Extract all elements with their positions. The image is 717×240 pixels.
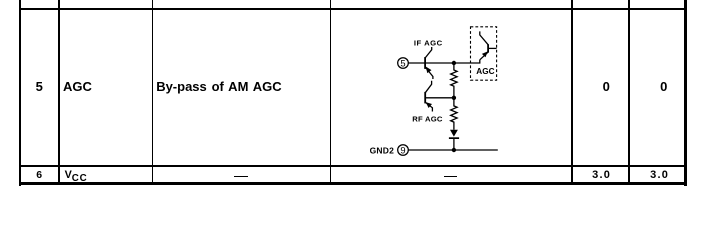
pin 9 terminal GND2	[398, 145, 409, 156]
pin 5 terminal	[398, 58, 409, 69]
wire Q2 base to node B	[426, 97, 454, 99]
node B junction	[452, 96, 456, 100]
svg-text:GND2: GND2	[370, 145, 394, 155]
table frame lines	[19, 0, 21, 186]
resistor R1	[451, 63, 457, 98]
svg-text:RF AGC: RF AGC	[412, 115, 443, 124]
svg-text:AGC: AGC	[476, 67, 494, 76]
svg-text:9: 9	[400, 145, 405, 156]
dashed box AGC block	[471, 27, 497, 80]
transistor Q2 (RF AGC, PNP)	[424, 81, 432, 112]
node A junction	[452, 61, 456, 65]
wire pin 5 to Q1 base and node A	[408, 62, 454, 64]
wire node A to Q3 emitter	[454, 60, 480, 63]
row 6 text	[36, 170, 42, 181]
diode D1	[449, 130, 459, 150]
svg-text:5: 5	[400, 58, 405, 69]
junction on GND2 rail	[452, 148, 456, 152]
wire GND2 rail	[408, 149, 497, 151]
svg-text:IF AGC: IF AGC	[414, 38, 443, 47]
circuit schematic	[352, 18, 517, 163]
resistor R2	[451, 98, 457, 130]
transistor Q3 (AGC, PNP mirrored)	[480, 31, 497, 59]
transistor Q1 (IF AGC, PNP)	[424, 47, 433, 79]
row 5 text	[36, 80, 43, 93]
